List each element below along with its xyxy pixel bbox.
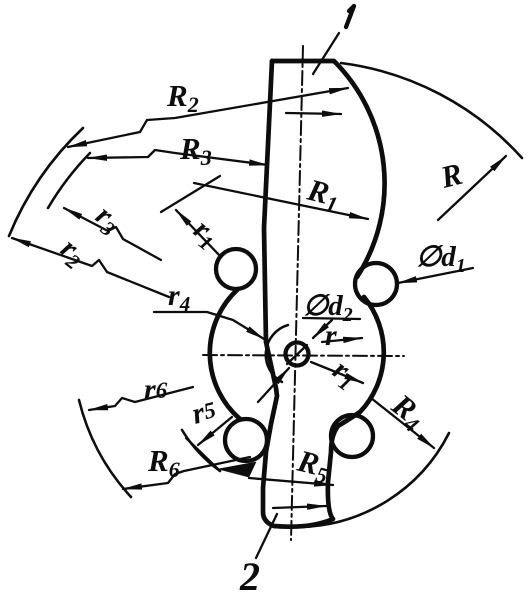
dimension line r5 <box>198 417 232 445</box>
datum arrow bottom <box>273 506 326 508</box>
dimension line r4 <box>154 312 264 339</box>
dimension line R2 <box>68 88 348 147</box>
dimension line R4 <box>371 398 434 448</box>
leader d2 <box>303 318 360 319</box>
svg-text:r4: r4 <box>168 279 190 316</box>
center hole diagonal tick <box>287 345 307 364</box>
dimension line r6 <box>89 387 193 410</box>
svg-text:r5: r5 <box>189 393 219 431</box>
dimension arrow r1 lower <box>311 362 363 383</box>
svg-text:r1: r1 <box>325 353 364 396</box>
cam body left bulge <box>210 289 240 419</box>
leader for label 2 <box>256 514 277 558</box>
dimension line R5 <box>249 478 333 485</box>
dimension line R1 <box>194 183 368 219</box>
dimension arrow r <box>322 338 362 342</box>
roller circle bottom-right <box>331 415 373 457</box>
dimension line R <box>438 156 506 220</box>
extension arc small r5 <box>182 430 220 471</box>
arrowhead R5 left <box>218 462 256 477</box>
svg-text:r1: r1 <box>185 213 225 256</box>
extension arc bottom-left <box>79 400 131 497</box>
svg-text:∅d2: ∅d2 <box>303 290 353 326</box>
extension tick for R1/r1 <box>161 176 220 212</box>
extension arc top-right R <box>341 63 522 158</box>
svg-text:R: R <box>436 156 466 195</box>
arrow to hole from lower-left <box>258 368 289 402</box>
roller circle top-left <box>216 249 256 289</box>
roller circle d1 top-right <box>355 263 397 305</box>
svg-text:2: 2 <box>239 554 260 596</box>
roller circle bottom-left <box>225 419 267 461</box>
svg-text:R6: R6 <box>147 443 180 482</box>
extension line for R5 <box>186 438 218 469</box>
centerline horizontal axis <box>203 355 404 356</box>
label 1 stroke digit <box>346 6 354 27</box>
cam body top bar and R1 profile curve <box>272 61 385 277</box>
leader for label 1 <box>313 33 339 74</box>
dimension line r3 <box>64 208 161 260</box>
centerline vertical axis <box>291 46 303 540</box>
svg-text:r: r <box>325 319 337 352</box>
extension arc bottom-right <box>300 433 449 527</box>
svg-text:r2: r2 <box>52 232 93 275</box>
center hole d2 <box>286 343 309 366</box>
svg-text:∅d1: ∅d1 <box>416 241 466 277</box>
dimension line R3 <box>88 150 268 165</box>
svg-text:R3: R3 <box>179 131 212 170</box>
datum arrow top <box>286 113 341 114</box>
dimension line r2 <box>12 238 169 297</box>
svg-text:R4: R4 <box>382 386 432 437</box>
leader arrow d2 <box>313 320 332 338</box>
leader d1 <box>398 268 473 283</box>
cam body right bulge, bottom bar and left edge <box>263 61 384 527</box>
extension arc inner left <box>48 153 90 208</box>
arc around center hole <box>266 325 288 382</box>
dimension line R6 <box>123 457 250 489</box>
svg-text:r6: r6 <box>144 373 168 406</box>
svg-text:R2: R2 <box>166 78 199 117</box>
dimension line r1 <box>176 210 221 257</box>
extension arc outer left <box>9 128 83 236</box>
